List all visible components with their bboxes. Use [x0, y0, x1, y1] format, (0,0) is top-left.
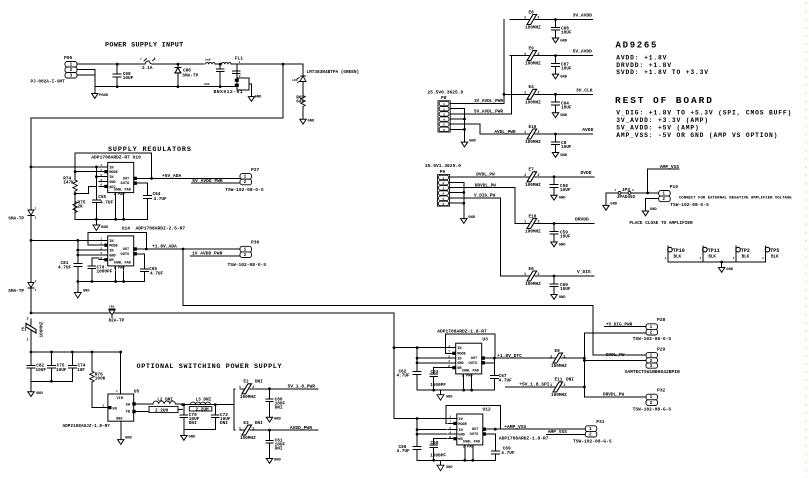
svg-text:SMA-TP: SMA-TP — [8, 217, 24, 222]
wire split to E2 E3 — [233, 405, 235, 431]
wire to bead E4 — [510, 93, 526, 95]
junction — [268, 429, 271, 432]
svg-text:1: 1 — [524, 273, 526, 277]
wire L2 out — [182, 403, 184, 406]
svg-text:GND: GND — [274, 418, 282, 422]
capacitor C58 — [550, 177, 558, 196]
svg-text:E18: E18 — [529, 214, 537, 219]
wire to PGND arrow — [95, 219, 97, 225]
wire to P10 — [648, 192, 659, 194]
svg-text:DNI: DNI — [275, 405, 283, 410]
svg-text:3V_CLK: 3V_CLK — [576, 87, 593, 93]
wire U14 sense loop — [88, 233, 146, 250]
svg-text:U12: U12 — [483, 407, 492, 413]
wire R60 to ground — [302, 107, 304, 119]
net stub AMP_VSS — [547, 433, 586, 435]
svg-text:U5: U5 — [134, 388, 140, 394]
svg-text:2: 2 — [537, 273, 539, 277]
svg-text:P8: P8 — [441, 95, 447, 101]
wire switcher input node row — [31, 351, 121, 353]
test point TP5 — [762, 246, 779, 262]
junction — [462, 389, 465, 392]
junction — [494, 428, 497, 431]
wire to bead E10 — [510, 133, 526, 135]
junction — [74, 170, 77, 173]
wire C65 to rail — [143, 273, 145, 282]
wire P9 pin1 to E7 — [451, 176, 526, 178]
svg-text:E9: E9 — [555, 349, 561, 354]
svg-text:10UF: 10UF — [56, 368, 67, 373]
ground PGND — [92, 94, 109, 99]
svg-text:1: 1 — [443, 103, 445, 106]
svg-text:IN: IN — [458, 429, 462, 433]
junction — [95, 166, 98, 169]
svg-text:100MHZ: 100MHZ — [525, 100, 541, 105]
svg-text:AVDD: +1.8V: AVDD: +1.8V — [616, 55, 667, 62]
svg-text:3: 3 — [443, 113, 445, 116]
svg-text:DRVDL_PW: DRVDL_PW — [603, 393, 624, 398]
svg-text:1: 1 — [615, 188, 617, 192]
svg-text:5: 5 — [442, 198, 444, 201]
connector P32 — [646, 388, 666, 406]
svg-text:P29: P29 — [657, 346, 666, 352]
svg-text:AVDD_PWR: AVDD_PWR — [290, 425, 312, 431]
wire P8 gnd stem — [464, 129, 466, 142]
svg-text:147K: 147K — [63, 181, 74, 186]
junction R74 R75 node — [74, 192, 77, 195]
svg-text:4.7UF: 4.7UF — [501, 451, 515, 456]
svg-text:OUT: OUT — [471, 357, 478, 361]
connector P05 — [31, 55, 78, 85]
svg-text:10UF: 10UF — [561, 105, 572, 110]
svg-text:DNI: DNI — [220, 421, 228, 426]
junction — [416, 417, 419, 420]
svg-text:2: 2 — [244, 180, 247, 185]
wire E9 to bus — [564, 357, 584, 359]
svg-text:BNX012-01: BNX012-01 — [214, 89, 244, 95]
fuse F1 — [139, 58, 159, 71]
diode CR6 — [175, 64, 199, 86]
svg-text:+5V_1.8_SPI: +5V_1.8_SPI — [519, 382, 550, 388]
svg-text:U3: U3 — [482, 336, 488, 342]
svg-text:ADP1708ARDZ-R7 U10: ADP1708ARDZ-R7 U10 — [91, 155, 141, 161]
svg-text:DVDL_PW: DVDL_PW — [606, 353, 625, 358]
svg-text:REST OF BOARD: REST OF BOARD — [615, 95, 714, 106]
svg-text:1: 1 — [733, 256, 735, 260]
wire OUT to C67 — [493, 358, 495, 373]
junction — [50, 351, 53, 354]
svg-text:E7: E7 — [529, 168, 535, 173]
ground P10 — [642, 208, 657, 216]
wire C62 down — [416, 376, 418, 390]
svg-text:+5V_ADA: +5V_ADA — [162, 173, 182, 179]
svg-text:2: 2 — [662, 197, 665, 202]
capacitor C8 — [552, 134, 560, 153]
wire C55 to rail — [95, 206, 97, 220]
wire E6 output — [538, 275, 594, 277]
svg-text:POWER SUPPLY INPUT: POWER SUPPLY INPUT — [105, 42, 183, 50]
wire input to U14 pin1 — [31, 239, 108, 241]
ground P9 — [461, 216, 476, 223]
capacitor filter right — [232, 71, 240, 74]
wire E8 output — [538, 19, 592, 21]
junction — [214, 403, 217, 406]
svg-text:1: 1 — [550, 384, 552, 388]
svg-text:GND: GND — [610, 202, 618, 206]
svg-text:OUTS: OUTS — [121, 253, 130, 257]
svg-text:IN: IN — [458, 418, 462, 422]
svg-text:DNI: DNI — [255, 421, 263, 426]
svg-text:4: 4 — [100, 178, 102, 182]
wire U3 OUTS — [483, 362, 494, 364]
svg-text:1: 1 — [524, 17, 526, 21]
svg-text:4: 4 — [449, 430, 451, 434]
ground U14 — [74, 290, 90, 299]
ferrite bead E3 — [239, 421, 263, 441]
diode CR2 test point — [8, 208, 36, 222]
svg-text:7: 7 — [449, 420, 451, 424]
svg-text:AD9265: AD9265 — [616, 41, 659, 51]
svg-text:4.7UF: 4.7UF — [154, 197, 168, 202]
svg-text:P10: P10 — [670, 184, 679, 190]
svg-text:BLK: BLK — [742, 256, 750, 260]
wire node to R76 — [91, 352, 93, 371]
wire E18 output — [538, 223, 594, 225]
svg-text:MODE: MODE — [458, 423, 467, 427]
svg-text:IN: IN — [457, 358, 461, 362]
junction — [122, 280, 125, 283]
junction — [91, 351, 94, 354]
capacitor C55 — [92, 197, 100, 206]
svg-text:4: 4 — [448, 359, 450, 363]
wire to U12 pin3 — [417, 429, 447, 431]
svg-text:GND: GND — [458, 434, 465, 438]
wire bus B to P29 pin2 — [584, 360, 646, 362]
svg-text:4.7UF: 4.7UF — [100, 200, 114, 205]
ferrite bead E8 — [524, 10, 541, 30]
svg-text:GND: GND — [560, 39, 568, 43]
svg-text:2: 2 — [537, 53, 539, 57]
svg-text:2: 2 — [252, 386, 254, 390]
svg-text:SMA-TP: SMA-TP — [8, 289, 24, 294]
svg-text:1: 1 — [550, 355, 552, 359]
svg-text:TP2: TP2 — [741, 248, 750, 254]
junction — [30, 351, 33, 354]
wire E3 output — [253, 429, 318, 431]
wire main +7V bus down-left — [31, 64, 283, 313]
wire U3 left bus — [416, 348, 418, 370]
svg-text:GND: GND — [189, 436, 197, 440]
svg-text:25.5V1.3625.0: 25.5V1.3625.0 — [425, 163, 461, 169]
wire U10 OUT to P27 — [135, 177, 240, 179]
resistor R60 — [296, 95, 305, 107]
wire U10 pin bus — [95, 167, 97, 197]
junction 3V rail E4 — [503, 93, 506, 96]
wire E11 to bus — [564, 386, 584, 388]
svg-text:6: 6 — [443, 129, 445, 132]
svg-text:LM7383N4BTPA (GREEN): LM7383N4BTPA (GREEN) — [307, 70, 360, 75]
svg-text:10UF: 10UF — [560, 235, 571, 240]
wire C81 to ground — [77, 268, 79, 293]
svg-text:GND: GND — [560, 154, 568, 158]
svg-text:DNI: DNI — [566, 378, 574, 383]
svg-text:2: 2 — [154, 58, 156, 61]
svg-text:GND: GND — [83, 290, 90, 294]
svg-text:GND: GND — [109, 254, 116, 258]
capacitor C81 — [74, 262, 82, 268]
ferrite bead E11 — [550, 378, 574, 398]
svg-text:OPTIONAL SWITCHING POWER SUPPL: OPTIONAL SWITCHING POWER SUPPLY — [137, 363, 283, 371]
ground U12 — [437, 465, 453, 471]
svg-text:GND: GND — [109, 181, 116, 185]
op-amp U10 regulator — [99, 162, 137, 197]
junction — [471, 459, 474, 462]
junction — [219, 63, 222, 66]
svg-text:DRVDD: DRVDD — [575, 217, 589, 223]
wire C78 top — [92, 257, 99, 259]
wire P9 pin3 to E18 — [451, 188, 526, 224]
junction E9 bus — [583, 357, 586, 360]
wire U3 ground rail — [417, 389, 494, 391]
wire feed to U12 pin1 — [394, 418, 457, 420]
svg-text:AVDD: AVDD — [582, 127, 593, 133]
wire U12 OUTS to C69 — [483, 434, 495, 450]
svg-text:P31: P31 — [596, 419, 605, 425]
junction — [493, 357, 496, 360]
svg-text:100MHZ: 100MHZ — [525, 183, 541, 188]
svg-text:GND: GND — [559, 243, 567, 247]
capacitor C82 — [27, 352, 35, 381]
svg-text:1: 1 — [100, 237, 102, 241]
svg-text:100K: 100K — [95, 377, 106, 382]
junction — [432, 389, 435, 392]
svg-text:8: 8 — [100, 183, 102, 187]
svg-text:3V_AVDD: +3.3V (AMP): 3V_AVDD: +3.3V (AMP) — [616, 117, 709, 124]
svg-text:GND: GND — [116, 417, 123, 421]
svg-text:2: 2 — [252, 427, 254, 431]
connector P27 — [240, 167, 260, 185]
junction C88 — [554, 18, 557, 21]
junction — [416, 346, 419, 349]
svg-text:8: 8 — [100, 256, 102, 260]
wire P05 pin2 — [77, 70, 95, 76]
svg-text:1000PF: 1000PF — [430, 454, 446, 459]
capacitor C68 — [113, 64, 133, 86]
svg-text:GND: GND — [36, 392, 44, 396]
svg-text:2.2UH: 2.2UH — [196, 407, 210, 412]
svg-text:SMA-TP: SMA-TP — [182, 74, 198, 79]
svg-text:BLK: BLK — [771, 256, 779, 260]
svg-text:E3: E3 — [243, 421, 249, 426]
ground U10 PGND — [93, 225, 109, 231]
ground C59 — [551, 242, 566, 247]
svg-text:IN: IN — [109, 166, 113, 170]
svg-text:6: 6 — [442, 203, 444, 206]
junction C68 top — [116, 63, 119, 66]
wire E1 to node row — [30, 334, 32, 352]
capacitor C60 — [550, 276, 558, 295]
junction — [183, 403, 186, 406]
ground switcher input — [28, 392, 44, 397]
wire fuse to filter — [159, 63, 204, 65]
svg-text:3: 3 — [650, 364, 653, 369]
wire to U3 gnd arrow — [440, 390, 442, 395]
wire to U14 pin4 — [78, 254, 99, 256]
wire divider to pin2 — [75, 171, 99, 173]
ferrite bead E9 mid — [550, 349, 567, 369]
svg-text:PGND: PGND — [99, 94, 109, 98]
capacitor C69 — [491, 450, 499, 456]
wire AMP_VSS stub — [648, 168, 679, 170]
junction E11 bus — [583, 386, 586, 389]
wire P8 pin4 gnd — [450, 118, 464, 120]
diode CR3 test point — [8, 280, 36, 294]
svg-text:TP5: TP5 — [770, 248, 779, 254]
junction — [76, 249, 79, 252]
svg-text:DNI: DNI — [275, 447, 283, 452]
capacitor C65 — [140, 267, 148, 273]
wire P05 pin3 to ground — [77, 75, 95, 94]
connector P29 — [646, 346, 666, 369]
wire ADJ tap — [75, 186, 96, 193]
text block REST OF BOARD — [615, 95, 792, 139]
svg-text:GND: GND — [274, 459, 282, 463]
svg-text:1: 1 — [239, 427, 241, 431]
svg-text:2: 2 — [537, 92, 539, 96]
wire to U3 pin3 — [417, 357, 447, 359]
svg-text:SGNL PAD: SGNL PAD — [114, 188, 132, 192]
svg-text:GND: GND — [101, 226, 109, 230]
svg-text:2.1A: 2.1A — [142, 66, 153, 71]
ground C60 — [551, 295, 566, 300]
svg-text:1000PF: 1000PF — [430, 383, 446, 388]
junction — [71, 351, 74, 354]
junction C60 — [553, 275, 556, 278]
wire to gnd L filters — [183, 429, 185, 435]
svg-text:2: 2 — [537, 131, 539, 135]
wire bus B to P28 pin2 — [584, 332, 646, 334]
test point TP2 — [733, 246, 750, 262]
jumper JP3 — [606, 187, 648, 205]
capacitor C67 — [490, 373, 498, 381]
svg-text:TP11: TP11 — [708, 248, 720, 254]
junction — [416, 433, 419, 436]
svg-text:5V_AVDD: 5V_AVDD — [573, 49, 593, 55]
capacitor filter left — [217, 64, 225, 86]
junction — [470, 389, 473, 392]
junction — [463, 459, 466, 462]
junction CR6 top — [177, 63, 180, 66]
wire C66 down — [416, 451, 418, 460]
wire E4 output — [538, 93, 592, 95]
svg-text:V_DIG: +1.8V TO +5.3V (SPI, CM: V_DIG: +1.8V TO +5.3V (SPI, CMOS BUFF) — [616, 109, 792, 116]
svg-text:OUTS: OUTS — [469, 362, 478, 366]
wire to LED — [302, 64, 304, 76]
ground P8 — [461, 140, 476, 147]
svg-text:AMP_VSS: AMP_VSS — [660, 164, 680, 170]
wire P8 pin5 to E10 — [450, 124, 510, 134]
svg-text:1: 1 — [140, 58, 142, 61]
svg-text:AMP_VSS: -5V OR GND (AMP VS OP: AMP_VSS: -5V OR GND (AMP VS OPTION) — [616, 132, 778, 139]
capacitor C80 — [266, 389, 273, 418]
svg-text:MODE: MODE — [109, 245, 118, 249]
svg-text:1: 1 — [239, 60, 241, 64]
wire U3 pad stub2 — [471, 378, 473, 390]
wire P8 pin3 riser — [510, 56, 512, 114]
junction CR6 bottom — [177, 85, 180, 88]
junction — [150, 177, 153, 180]
svg-text:100MHZ: 100MHZ — [525, 282, 541, 287]
wire test point rail — [668, 261, 766, 263]
wire U14 ground rail — [78, 281, 145, 283]
svg-text:5: 5 — [443, 124, 445, 127]
ground C88 — [552, 38, 567, 43]
junction U3 feed — [393, 346, 396, 349]
net stub 5V AVDD PWR — [191, 182, 240, 184]
wire switcher cap ground rail — [31, 380, 72, 382]
svg-text:+V_DIG_PWR: +V_DIG_PWR — [606, 322, 633, 327]
ground C84 — [552, 113, 567, 118]
svg-text:TSW-102-08-G-S: TSW-102-08-G-S — [670, 202, 709, 208]
inductor L top-left — [206, 63, 216, 65]
svg-text:8: 8 — [448, 364, 450, 368]
capacitor C72 — [212, 405, 219, 430]
ferrite bead E1 — [22, 318, 45, 343]
svg-text:1: 1 — [27, 339, 29, 343]
svg-text:4.7UF: 4.7UF — [397, 449, 411, 454]
wire U10 AUTO to C64 — [135, 183, 148, 192]
svg-text:5V_AVDL_PWR: 5V_AVDL_PWR — [474, 110, 503, 115]
capacitor C61 — [266, 430, 273, 458]
svg-text:E4: E4 — [529, 85, 535, 90]
svg-text:2: 2 — [563, 384, 565, 388]
wire TP rail to gnd — [721, 262, 723, 268]
svg-text:2: 2 — [449, 426, 451, 430]
wire C67 down — [493, 381, 495, 390]
ground U3 — [437, 395, 453, 401]
ground U5 — [118, 437, 133, 445]
svg-text:5V_AVDD: +5V (AMP): 5V_AVDD: +5V (AMP) — [616, 124, 699, 131]
ferrite bead E9 — [524, 46, 541, 66]
svg-text:2: 2 — [442, 182, 444, 185]
svg-text:E6: E6 — [529, 267, 535, 272]
svg-text:8: 8 — [449, 435, 451, 439]
svg-text:1: 1 — [35, 289, 37, 292]
svg-text:GND: GND — [560, 114, 568, 118]
connector P8 — [427, 90, 463, 132]
svg-text:GND: GND — [308, 120, 316, 124]
svg-text:1mH: 1mH — [205, 59, 211, 62]
inductor L2 — [136, 398, 183, 414]
junction bus U10 — [30, 166, 33, 169]
transistor U5 switching regulator — [63, 388, 140, 429]
svg-text:DRVDD: +1.8V: DRVDD: +1.8V — [616, 62, 672, 69]
svg-text:2: 2 — [443, 108, 445, 111]
wire C64 to rail — [147, 201, 149, 219]
svg-text:OUT: OUT — [123, 248, 130, 252]
svg-text:AUTO: AUTO — [121, 182, 130, 186]
wire U12 sense loop — [446, 406, 500, 430]
svg-text:LED: LED — [292, 79, 298, 82]
svg-text:2.2UH: 2.2UH — [155, 408, 169, 413]
svg-text:25.5V0.3625.0: 25.5V0.3625.0 — [427, 90, 463, 96]
svg-text:2: 2 — [589, 432, 592, 437]
wire raw bus to U3 U12 — [31, 313, 394, 419]
junction — [95, 175, 98, 178]
diode CR5 test point — [109, 306, 125, 324]
svg-text:GND: GND — [255, 95, 263, 99]
svg-text:P30: P30 — [251, 240, 260, 246]
